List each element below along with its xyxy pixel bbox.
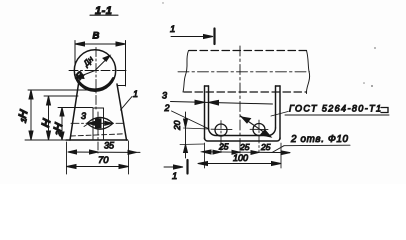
leader for 3 — [84, 125, 87, 127]
H2 dimension — [52, 108, 93, 141]
support vertical center line — [239, 46, 241, 153]
gost shelf line — [285, 114, 389, 116]
right wall top cap — [276, 85, 281, 87]
web top edge line / thickness 3 dim line — [162, 91, 273, 106]
svg-text:20: 20 — [172, 120, 182, 131]
lens weld feature — [87, 117, 113, 129]
body bottom edge — [66, 139, 128, 141]
dimension chain 25x3 — [201, 142, 290, 155]
dimension 70 — [67, 141, 129, 174]
right wall outer — [279, 86, 281, 139]
body right top ledge — [117, 85, 125, 87]
leader 1 (left fig) — [121, 89, 139, 110]
svg-text:3: 3 — [162, 91, 167, 101]
saddle thick lower arc — [76, 78, 113, 90]
radius line R with arrow — [74, 70, 95, 82]
svg-text:R: R — [74, 70, 87, 82]
outer bottom with small corner radii — [205, 138, 281, 141]
radius line Dn with arrow — [81, 54, 110, 70]
dimension B left extension — [74, 41, 76, 67]
pipe left break line — [183, 51, 189, 93]
circle horizontal center line — [69, 70, 128, 72]
section mark top: label 1 — [170, 24, 215, 44]
gost weld symbol — [381, 108, 388, 113]
section mark bottom: label 1 — [164, 160, 188, 182]
bottom extension to the left for H dims — [25, 139, 66, 141]
section label 1-1 — [90, 5, 118, 17]
vertical center line — [95, 48, 97, 112]
svg-text:1: 1 — [172, 171, 177, 182]
dimension 100 — [198, 143, 281, 168]
svg-text:Дн: Дн — [81, 54, 96, 69]
svg-text:В: В — [93, 31, 100, 42]
svg-text:70: 70 — [98, 155, 109, 166]
scan specks — [162, 2, 376, 87]
dimension 20 — [172, 112, 209, 158]
label 2 with leader — [164, 103, 209, 129]
H1 dimension — [17, 90, 88, 140]
hole left — [211, 121, 232, 153]
svg-text:ГОСТ 5264-80-Т1: ГОСТ 5264-80-Т1 — [289, 104, 381, 114]
channel U-body outline — [205, 86, 281, 141]
dimension B line — [75, 42, 126, 46]
left wall top cap — [205, 85, 209, 87]
gost leader diagonal through right hole — [241, 116, 272, 137]
dimension 35 — [68, 141, 140, 155]
hole right — [250, 120, 268, 153]
body left wall (slanted) — [70, 81, 79, 141]
svg-text:25: 25 — [239, 142, 250, 152]
pipe top edge dashed — [189, 50, 307, 52]
left wall outer — [204, 86, 206, 139]
svg-text:35: 35 — [104, 141, 115, 151]
svg-text:25: 25 — [260, 142, 271, 152]
svg-text:2 отв. Ф10: 2 отв. Ф10 — [290, 134, 349, 145]
svg-text:3: 3 — [81, 111, 86, 121]
pipe right break line — [306, 51, 309, 94]
stud hidden outline — [93, 108, 104, 139]
svg-text:2: 2 — [164, 103, 170, 113]
body right wall (slanted) — [117, 84, 127, 140]
pipe center line — [178, 71, 310, 73]
H dimension — [40, 96, 78, 140]
dimension B right extension / right wall extension — [125, 41, 127, 87]
pipe circle (section) — [74, 50, 115, 91]
stud center line — [97, 112, 99, 153]
svg-text:25: 25 — [218, 142, 229, 152]
inner bottom with corner radii — [209, 128, 276, 136]
svg-text:1: 1 — [170, 24, 175, 35]
right wall inner — [275, 86, 277, 128]
svg-text:1: 1 — [133, 89, 138, 99]
pipe bottom edge dashed — [184, 91, 307, 93]
feature horizontal center line — [71, 122, 125, 124]
left wall inner — [208, 86, 210, 128]
gost shelf connector — [271, 112, 288, 117]
hidden base top dashed line — [71, 134, 126, 136]
callout 2 otv F10 — [272, 134, 350, 153]
svg-text:100: 100 — [233, 153, 248, 163]
